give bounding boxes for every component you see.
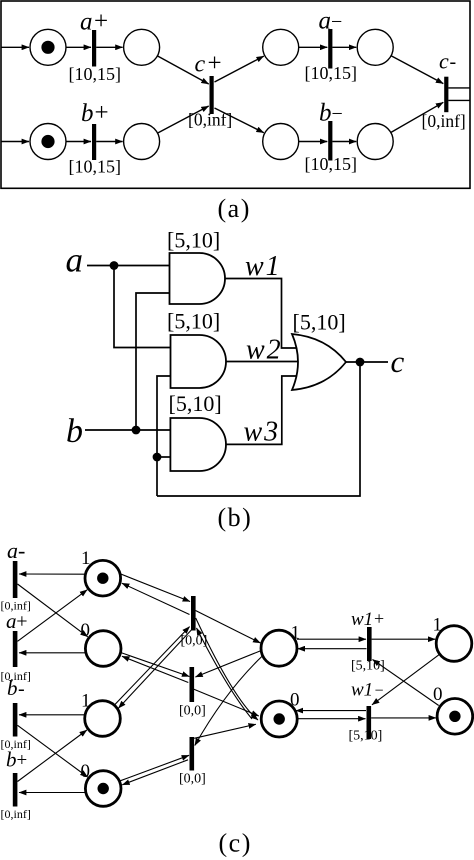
transition a+ <box>92 30 96 67</box>
wire pa3 to a- <box>299 46 328 48</box>
wire pb2 to c+ <box>158 106 209 133</box>
svg-text:w1: w1 <box>351 680 373 701</box>
label w1 <box>245 251 282 282</box>
arc t2 to a=0 <box>122 656 188 682</box>
arc a=1 to a- <box>19 573 85 575</box>
svg-text:[5,10]: [5,10] <box>167 228 220 253</box>
transition t2 [0,0] <box>190 667 195 702</box>
svg-text:[5,10]: [5,10] <box>167 309 220 334</box>
transition b+ <box>92 124 96 160</box>
place pb3 <box>263 124 299 160</box>
svg-text:[5,10]: [5,10] <box>293 310 346 335</box>
marking label 1 of place g=1 <box>291 623 301 644</box>
svg-text:b: b <box>81 100 94 127</box>
place pa4 <box>357 29 393 65</box>
transition a- <box>328 29 332 69</box>
wire w3: AND3 output to OR input <box>226 376 297 444</box>
value label [0,inf] of a+ (c) <box>1 669 31 683</box>
svg-text:[10,15]: [10,15] <box>305 154 358 174</box>
place b=1 <box>85 701 121 737</box>
arc t3 to b=0 <box>122 760 188 785</box>
AND gate 3 <box>170 418 226 471</box>
wire pb4 to c- <box>391 102 444 132</box>
arc w1- to g=0 <box>296 710 366 712</box>
caption (c) <box>219 829 252 858</box>
value label [0,inf] of a- (c) <box>1 599 31 613</box>
wire frame to place pb1 <box>1 141 29 143</box>
svg-text:w1: w1 <box>351 609 373 630</box>
arc g=0 to w1- <box>298 718 366 720</box>
svg-text:[0,0]: [0,0] <box>179 704 206 719</box>
place pb4 <box>357 124 393 160</box>
label a+ (c) <box>6 609 28 633</box>
arc g=1 to w1+ <box>297 638 366 640</box>
value label [10,15] of a+ <box>69 64 122 84</box>
svg-text:(b): (b) <box>218 503 253 532</box>
node a junction <box>110 261 119 270</box>
node b junction <box>132 426 141 435</box>
place b=0 (token) <box>85 771 121 807</box>
AND gate 1 <box>170 253 226 304</box>
wire a input <box>87 265 170 267</box>
svg-text:b: b <box>7 676 18 700</box>
wire pa2 to c+ <box>157 56 208 84</box>
svg-text:a: a <box>80 9 93 36</box>
wire b+ to pb2 <box>96 141 122 143</box>
wire AND2 second input from feedback <box>157 376 171 496</box>
value label [10,15] of b+ <box>69 157 122 177</box>
svg-text:[10,15]: [10,15] <box>305 63 358 83</box>
wire w2: AND2 output to OR input <box>226 361 299 363</box>
svg-text:(a): (a) <box>218 194 251 223</box>
value label [0,0] of t2 <box>179 704 206 719</box>
wire b junction up to AND1 input <box>136 293 170 430</box>
label b- <box>319 99 343 126</box>
wire pb1 to b+ <box>66 141 91 143</box>
label a- (c) <box>7 538 25 563</box>
value label [0,inf] of c- <box>422 111 466 131</box>
transition t3 [0,0] <box>190 737 195 771</box>
wire feedback junction to AND3 input <box>157 456 170 458</box>
wire c+ to pa3 <box>215 56 264 82</box>
arc t3 to g=0 <box>194 724 256 738</box>
arc b=1 to t1 <box>115 627 190 705</box>
label b+ <box>81 99 109 127</box>
value label [5,10] of AND2 <box>167 309 220 334</box>
arc a=0 to a+ <box>19 652 85 654</box>
svg-text:+: + <box>208 50 222 77</box>
place w1=0 (token) <box>437 699 473 735</box>
wire c- to frame upper stub <box>448 87 470 89</box>
svg-text:(c): (c) <box>219 829 252 858</box>
svg-text:-: - <box>18 678 25 700</box>
svg-text:+: + <box>374 609 384 629</box>
wire a- to pa4 <box>332 46 356 48</box>
svg-text:[0,inf]: [0,inf] <box>1 807 31 821</box>
transition c- <box>444 77 448 113</box>
label w1- <box>351 680 384 701</box>
arc w1+ to w1=1 <box>372 638 436 640</box>
svg-text:[0,inf]: [0,inf] <box>188 110 232 130</box>
svg-text:0: 0 <box>290 690 300 711</box>
value label [10,15] of a- <box>305 63 358 83</box>
svg-text:1: 1 <box>291 623 301 644</box>
arc b- to b=0 <box>18 725 88 777</box>
svg-text:[0,inf]: [0,inf] <box>422 111 466 131</box>
wire pa1 to a+ <box>66 46 91 48</box>
svg-text:[5,10]: [5,10] <box>349 729 383 744</box>
svg-text:a: a <box>319 8 332 35</box>
svg-text:b: b <box>319 99 332 126</box>
arc b=1 to b- <box>19 714 85 716</box>
node feedback junction <box>153 453 162 462</box>
value label [5,10] of OR <box>293 310 346 335</box>
label a- <box>319 8 343 35</box>
arc t1 to g=0 <box>196 618 258 720</box>
node c junction <box>356 358 365 367</box>
label b+ (c) <box>6 748 27 772</box>
wire a junction down to AND2 input <box>114 266 171 348</box>
svg-text:0: 0 <box>81 761 91 782</box>
svg-text:+: + <box>16 611 27 633</box>
svg-text:a: a <box>7 538 18 563</box>
caption (a) <box>218 194 251 223</box>
svg-text:b: b <box>66 413 83 450</box>
svg-text:−: − <box>331 11 342 33</box>
svg-text:-: - <box>18 538 25 563</box>
arc t1 to b=1 <box>118 629 192 709</box>
svg-text:1: 1 <box>81 691 91 712</box>
wire a+ to pa2 <box>96 46 122 48</box>
arc b+ to b=1 <box>18 730 87 782</box>
value label [5,10] of w1- <box>349 729 383 744</box>
svg-text:−: − <box>332 103 343 125</box>
svg-text:[5,10]: [5,10] <box>169 391 222 416</box>
marking label 1 of place w1=1 <box>433 615 443 636</box>
svg-text:+: + <box>95 99 109 126</box>
wire c output <box>346 361 388 363</box>
transition b- <box>328 121 332 161</box>
arc t1 to a=1 <box>122 583 190 614</box>
arc b=0 to b+ <box>19 792 85 794</box>
value label [5,10] of w1+ <box>351 659 385 674</box>
marking label 0 of place a=0 <box>81 620 91 641</box>
transition b+ (c) <box>13 773 18 807</box>
value label [0,inf] of b+ (c) <box>1 807 31 821</box>
svg-text:0: 0 <box>433 684 443 705</box>
transition c+ <box>210 76 214 114</box>
arc t1 to g=1 <box>196 611 261 644</box>
arc w1=1 to w1- <box>372 654 440 705</box>
svg-text:w2: w2 <box>246 335 283 366</box>
label b <box>66 413 83 450</box>
wire c+ to pb3 <box>215 108 264 133</box>
svg-text:[5,10]: [5,10] <box>351 659 385 674</box>
svg-text:+: + <box>94 8 108 35</box>
svg-text:1: 1 <box>81 548 91 569</box>
svg-text:c: c <box>439 49 449 74</box>
svg-text:a: a <box>66 241 84 280</box>
arc g=1 to t3 <box>195 657 262 746</box>
label c <box>391 344 405 379</box>
arc a- to a=0 <box>18 584 88 637</box>
value label [0,inf] of b- (c) <box>1 737 31 751</box>
place g=0 (token) <box>261 701 297 737</box>
value label [0,0] of t3 <box>179 772 206 787</box>
transition b- (c) <box>13 703 18 737</box>
arc g=0 to t1 <box>197 628 253 719</box>
arc a=1 to t1 <box>120 574 191 602</box>
marking label 1 of place b=1 <box>81 691 91 712</box>
value label [5,10] of AND1 <box>167 228 220 253</box>
caption (b) <box>218 503 253 532</box>
svg-text:[10,15]: [10,15] <box>69 157 122 177</box>
transition a- (c) <box>13 561 18 598</box>
place a=1 (token) <box>85 560 121 596</box>
marking label 0 of place w1=0 <box>433 684 443 705</box>
label a+ <box>80 8 108 36</box>
svg-text:w1: w1 <box>245 251 282 282</box>
arc w1=0 to w1+ <box>373 660 439 706</box>
wire c- to frame lower stub <box>448 99 470 101</box>
arc w1- to w1=0 <box>371 717 436 719</box>
svg-text:w3: w3 <box>244 417 281 448</box>
wire b- to pb4 <box>332 141 356 143</box>
arc t2 to g=0 <box>193 689 258 716</box>
label c- <box>439 49 456 74</box>
arc a=0 to t2 <box>121 653 190 677</box>
AND gate 2 <box>171 335 227 388</box>
label c+ <box>195 50 222 78</box>
transition w1+ <box>367 627 372 661</box>
svg-text:1: 1 <box>433 615 443 636</box>
arc a+ to a=1 <box>18 590 88 642</box>
label w3 <box>244 417 281 448</box>
svg-text:[10,15]: [10,15] <box>69 64 122 84</box>
transition a+ (c) <box>13 631 18 667</box>
place g=1 <box>261 630 297 666</box>
label a <box>66 241 84 280</box>
transition w1- <box>367 706 372 739</box>
arc g=1 to t2 <box>195 651 261 677</box>
place pa3 <box>263 29 299 65</box>
svg-text:0: 0 <box>81 620 91 641</box>
OR gate U4 <box>292 334 346 390</box>
svg-text:c: c <box>195 52 206 78</box>
place pb1 (token) <box>30 124 66 160</box>
label b- (c) <box>7 676 25 700</box>
wire pb3 to b- <box>299 141 328 143</box>
place pa1 (token) <box>30 29 66 65</box>
marking label 1 of place a=1 <box>81 548 91 569</box>
wire c feedback to AND2/AND3 <box>157 362 360 496</box>
label w2 <box>246 335 283 366</box>
value label [0,inf] of c+ <box>188 110 232 130</box>
marking label 0 of place b=0 <box>81 761 91 782</box>
place pa2 <box>124 29 160 65</box>
transition t1 [0,0] <box>191 596 196 631</box>
svg-text:[0,0]: [0,0] <box>179 772 206 787</box>
wire b input <box>85 429 170 431</box>
svg-text:+: + <box>17 750 28 771</box>
place a=0 <box>85 631 121 667</box>
marking label 0 of place g=0 <box>290 690 300 711</box>
svg-text:c: c <box>391 344 405 379</box>
svg-text:a: a <box>6 609 17 633</box>
wire pa4 to c- <box>391 56 443 84</box>
svg-text:-: - <box>450 51 457 73</box>
label w1+ <box>351 609 384 631</box>
wire w1: AND1 output to OR input <box>225 279 297 349</box>
value label [5,10] of AND3 <box>169 391 222 416</box>
wire frame to place pa1 <box>1 46 29 48</box>
value label [10,15] of b- <box>305 154 358 174</box>
place w1=1 <box>436 626 472 662</box>
arc w1+ to g=1 <box>298 648 367 650</box>
arc b=0 to t3 <box>121 755 190 780</box>
place pb2 <box>124 124 160 160</box>
feedback frame wire <box>1 1 470 188</box>
svg-text:b: b <box>6 748 17 772</box>
value label [0,0] of t1 <box>181 634 208 649</box>
